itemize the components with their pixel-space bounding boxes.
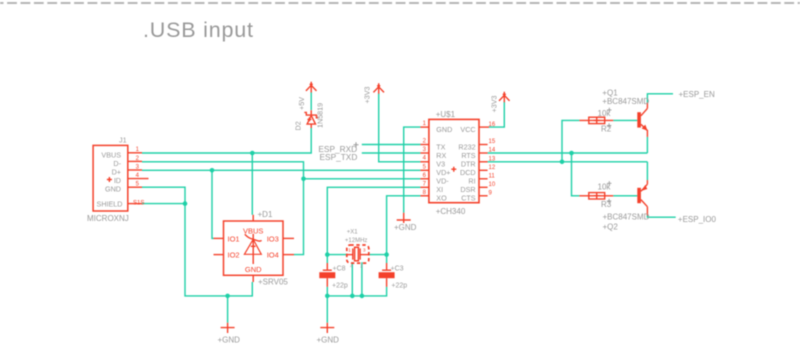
svg-text:+5V: +5V (297, 97, 306, 110)
svg-text:IO3: IO3 (267, 234, 279, 243)
wire gnd rail under crystal (327, 262, 386, 323)
supply +3V3 arrow right (499, 92, 510, 102)
IC U$1 CH340 (420, 119, 495, 202)
svg-text:GND: GND (245, 265, 262, 274)
wire net CH340 pin1 GND (404, 127, 421, 213)
svg-text:+3V3: +3V3 (362, 87, 371, 104)
svg-text:VCC: VCC (460, 125, 475, 134)
svg-text:XO: XO (436, 194, 447, 203)
wire net D- (142, 162, 420, 255)
svg-text:D2: D2 (294, 121, 303, 130)
ground symbol GND left (221, 323, 235, 333)
wire crystal left to XI (327, 254, 347, 256)
junction DTR to R2 (560, 160, 565, 165)
capacitor C8 (319, 263, 335, 287)
svg-text:+22p: +22p (391, 283, 407, 290)
junction shield/gnd (183, 201, 188, 206)
svg-text:IO1: IO1 (228, 234, 240, 243)
svg-text:ESP_TXD: ESP_TXD (320, 152, 358, 162)
svg-text:+BC847SMD: +BC847SMD (602, 97, 649, 106)
svg-text:RX: RX (436, 151, 446, 160)
wire Q1 emitter to RTS (646, 137, 648, 153)
svg-text:16: 16 (489, 122, 496, 128)
junction D+ to SRV05 IO1 (210, 168, 215, 173)
svg-text:CTS: CTS (461, 194, 476, 203)
svg-text:+U$1: +U$1 (436, 110, 456, 119)
resistor R3 10k (579, 193, 613, 199)
svg-text:1N5819: 1N5819 (316, 103, 325, 128)
svg-text:SHIELD: SHIELD (97, 200, 123, 209)
wire net +3V3 to V3 pin (379, 94, 421, 162)
junction gnd rail tap (225, 294, 230, 299)
junction rail xtal leg2 (360, 294, 365, 299)
svg-text:S1S: S1S (133, 200, 144, 206)
junction rail C8 (325, 294, 330, 299)
svg-text:13: 13 (489, 157, 496, 163)
ground symbol GND crystal (320, 323, 334, 333)
wire net DTR (488, 120, 648, 161)
svg-text:11: 11 (489, 174, 496, 180)
svg-text:RTS: RTS (461, 151, 475, 160)
svg-text:GND: GND (436, 125, 452, 134)
svg-text:+BC847SMD: +BC847SMD (603, 213, 650, 222)
svg-text:+X1: +X1 (347, 230, 359, 236)
svg-text:+C3: +C3 (391, 265, 404, 272)
supply +3V3 arrow left (373, 83, 384, 93)
ground symbol GND CH340 pin1 (397, 213, 411, 223)
transistor Q2 BC847SMD (637, 180, 647, 215)
wire crystal right to XO (369, 254, 387, 256)
diode D2 1N5819 (304, 110, 318, 128)
svg-text:15: 15 (489, 139, 496, 145)
svg-text:10: 10 (489, 182, 496, 188)
svg-text:14: 14 (489, 148, 496, 154)
crystal X1 12MHz (347, 245, 369, 269)
svg-text:+D1: +D1 (258, 210, 273, 219)
wire net GND from USB (142, 187, 252, 323)
svg-text:+GND: +GND (317, 336, 340, 345)
svg-text:12: 12 (489, 165, 496, 171)
svg-text:+3V3: +3V3 (490, 96, 499, 113)
TVS diode array D1 SRV05 (214, 215, 295, 282)
svg-text:MICROXNJ: MICROXNJ (87, 214, 129, 223)
svg-text:+CH340: +CH340 (436, 207, 466, 216)
wire Q2 emitter to ESP_IO0 (647, 216, 675, 218)
svg-text:+12MHz: +12MHz (345, 238, 368, 244)
svg-text:+GND: +GND (218, 336, 241, 345)
transistor Q1 BC847SMD (637, 103, 647, 137)
label: sheet title USB input (143, 18, 254, 42)
wire net VCC to +3V3 (489, 102, 504, 127)
wire net XI (327, 187, 420, 263)
svg-text:+C8: +C8 (333, 265, 346, 272)
svg-text:J1: J1 (119, 136, 127, 145)
wire net ESP_TXD (CH340 RX) (362, 152, 421, 154)
capacitor C3 (379, 263, 395, 287)
svg-text:+ESP_IO0: +ESP_IO0 (678, 215, 717, 224)
junction on VBUS at SRV05 tap (250, 151, 255, 156)
svg-text:IO2: IO2 (228, 251, 240, 260)
connector J1 MICROXNJ (93, 145, 148, 211)
junction RTS to R3 (569, 151, 574, 156)
junction XO at crystal (384, 252, 389, 257)
junction XI at crystal (325, 252, 330, 257)
wire R2 to Q1 base (613, 119, 637, 121)
resistor R2 10k (579, 117, 613, 123)
supply +5V arrow (306, 82, 317, 110)
svg-text:.USB input: .USB input (143, 18, 254, 42)
svg-text:+Q2: +Q2 (603, 223, 619, 232)
wire R3 to Q2 base (613, 195, 637, 197)
svg-text:+ESP_EN: +ESP_EN (679, 90, 715, 99)
wire net D+ (142, 170, 420, 238)
wire Q2 collector to DTR (646, 162, 648, 180)
svg-text:GND: GND (105, 185, 121, 194)
wire net VBUS (142, 128, 311, 215)
wire net RTS (488, 153, 648, 196)
junction rail xtal leg1 (350, 294, 355, 299)
wire net ESP_RXD (CH340 TX) (362, 144, 421, 146)
svg-text:IO4: IO4 (267, 251, 279, 260)
svg-text:+SRV05: +SRV05 (258, 278, 288, 287)
svg-text:+GND: +GND (394, 223, 417, 232)
svg-text:+22p: +22p (332, 283, 348, 290)
wire net XO (387, 196, 421, 263)
wire Q1 collector to ESP_EN (647, 94, 673, 103)
junction D- to CH340 UD- (301, 177, 306, 182)
